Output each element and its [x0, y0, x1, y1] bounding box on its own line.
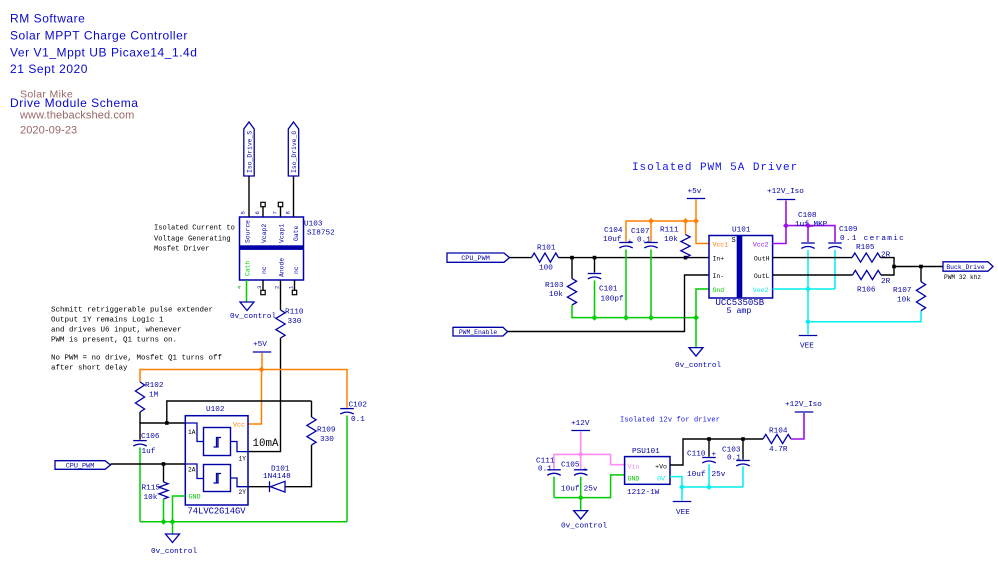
svg-text:CPU_PWM: CPU_PWM — [461, 255, 490, 263]
wire CPU_PWM to R101 — [510, 257, 532, 259]
svg-text:10k: 10k — [664, 236, 678, 244]
svg-text:and drives U6 input, whenever: and drives U6 input, whenever — [51, 327, 182, 335]
svg-text:In+: In+ — [713, 255, 725, 262]
capacitor C104 10uf — [603, 227, 633, 248]
resistor R111 10k — [660, 227, 690, 258]
capacitor C105 10uf — [561, 462, 598, 494]
svg-text:C107: C107 — [631, 228, 650, 236]
svg-text:+: + — [628, 239, 633, 247]
wire R109 leads — [285, 401, 312, 487]
svg-text:1Y: 1Y — [239, 456, 247, 463]
svg-text:Isolated Current to: Isolated Current to — [154, 225, 235, 233]
svg-text:10k: 10k — [549, 291, 563, 299]
svg-text:5 amp: 5 amp — [727, 307, 752, 316]
svg-text:1212-1W: 1212-1W — [627, 489, 660, 497]
wire D101 cathode to U102 2Y — [248, 486, 270, 488]
junction cyan psu left — [679, 484, 685, 490]
svg-text:3: 3 — [256, 286, 263, 289]
svg-text:OutL: OutL — [754, 273, 770, 280]
svg-text:10uf: 10uf — [603, 236, 622, 244]
junction cyan C108-vee2 — [805, 286, 811, 292]
svg-text:C105: C105 — [561, 462, 580, 470]
junction green C104 — [623, 315, 629, 321]
svg-text:Vin: Vin — [628, 464, 640, 471]
svg-text:74LVC2G14GV: 74LVC2G14GV — [188, 507, 247, 517]
svg-text:Gate: Gate — [293, 225, 300, 241]
wire +5V stem (orange) — [261, 353, 263, 370]
ground 0v_control right — [675, 348, 722, 370]
svg-text:nc: nc — [293, 266, 300, 274]
power symbol +5v (right) — [687, 188, 706, 199]
U103 no-connect stub pin 1 — [292, 280, 296, 295]
net flag Iso_Drive_G — [288, 122, 298, 176]
svg-text:Buck_Drive: Buck_Drive — [946, 264, 985, 271]
svg-text:Vcc2: Vcc2 — [753, 242, 769, 249]
svg-text:Solar MPPT Charge Controller: Solar MPPT Charge Controller — [10, 29, 188, 43]
svg-text:R101: R101 — [537, 245, 556, 253]
svg-text:R104: R104 — [769, 428, 788, 436]
svg-text:10k: 10k — [144, 494, 158, 502]
wire CPU_PWM to U102 2A — [111, 463, 186, 465]
svg-text:+: + — [712, 451, 717, 459]
net flag Buck_Drive — [943, 262, 993, 271]
wire R110 down to 1Y output of U102 — [248, 338, 281, 452]
wire U102 GND to ground bus (green) — [173, 496, 186, 522]
svg-text:7: 7 — [272, 211, 279, 214]
svg-text:0.1: 0.1 — [538, 466, 552, 474]
svg-text:Gnd: Gnd — [713, 287, 725, 294]
svg-text:In-: In- — [713, 273, 725, 280]
svg-text:Voltage Generating: Voltage Generating — [154, 236, 231, 244]
capacitor C108 1uf_MKP — [795, 212, 828, 249]
wire OutL to R106 — [773, 274, 853, 276]
svg-text:0.1 ceramic: 0.1 ceramic — [840, 235, 905, 243]
junction R115 bus — [161, 519, 167, 525]
net flag PWM_Enable — [453, 327, 508, 336]
junction green C107 — [648, 315, 654, 321]
wire flag G to U103 pin 8 — [293, 176, 295, 217]
svg-text:0.1: 0.1 — [351, 416, 365, 424]
junction green psu — [578, 495, 584, 501]
wire C105 bottom green — [580, 477, 582, 498]
svg-text:0V: 0V — [657, 476, 665, 483]
svg-text:21 Sept 2020: 21 Sept 2020 — [10, 62, 88, 76]
svg-text:S: S — [732, 237, 736, 245]
svg-text:Iso_Drive_G: Iso_Drive_G — [291, 131, 298, 173]
svg-text:Cath: Cath — [245, 260, 252, 276]
svg-text:2020-09-23: 2020-09-23 — [20, 125, 77, 137]
capacitor C102 0.1 — [340, 402, 367, 425]
orange bus right circuit — [626, 221, 709, 244]
junction +5v at stem — [259, 367, 265, 373]
resistor R104 4.7R — [763, 428, 791, 455]
svg-text:10uf: 10uf — [561, 486, 580, 494]
svg-text:VEE: VEE — [800, 343, 814, 351]
svg-text:0v_control: 0v_control — [675, 362, 722, 370]
ground 0v_control psu — [561, 511, 608, 531]
svg-text:C111: C111 — [536, 458, 555, 466]
wire node A up to feedback line — [167, 401, 312, 423]
svg-text:+5V: +5V — [253, 341, 267, 349]
svg-text:10uf: 10uf — [687, 471, 706, 479]
VEE power symbol (psu) — [673, 487, 692, 517]
wire U103 anode down to R110 — [280, 280, 282, 310]
net flag CPU_PWM (right) — [447, 253, 510, 263]
wire C102 bottom to ground bus (green) — [346, 416, 348, 522]
svg-text:U102: U102 — [206, 406, 225, 414]
svg-text:R105: R105 — [856, 244, 875, 252]
junction C110 — [707, 437, 711, 441]
svg-text:Isolated PWM 5A Driver: Isolated PWM 5A Driver — [632, 162, 798, 174]
wire C109 bottom cyan — [834, 250, 836, 289]
wire C103 bottom cyan — [742, 466, 744, 487]
svg-text:C108: C108 — [798, 212, 817, 220]
diode D101 1N4148 — [263, 466, 291, 493]
purple drop C108 — [807, 226, 809, 242]
svg-text:PSU101: PSU101 — [632, 448, 660, 456]
wire Vcc2 purple — [773, 201, 786, 244]
junction cyan C110 — [706, 484, 712, 490]
svg-text:R102: R102 — [145, 382, 164, 390]
purple bus to caps — [786, 226, 835, 242]
junction C101 — [593, 256, 597, 260]
junction R103 — [570, 256, 574, 260]
svg-text:Schmitt retriggerable pulse ex: Schmitt retriggerable pulse extender — [51, 307, 213, 315]
resistor R103 10k — [545, 258, 577, 305]
svg-text:C106: C106 — [141, 433, 160, 441]
svg-text:after short delay: after short delay — [51, 365, 128, 373]
junction at R115 — [162, 462, 166, 466]
power symbol +12V_Iso (upper) — [767, 188, 804, 200]
U102 schmitt inverter 2 — [204, 465, 231, 492]
ground bus left circuit (green) — [140, 521, 347, 523]
svg-text:R111: R111 — [660, 227, 679, 235]
capacitor C107 0.1 — [631, 228, 658, 248]
svg-text:R107: R107 — [893, 287, 912, 295]
svg-text:+: + — [583, 467, 588, 475]
svg-text:PWM is present, Q1 turns on.: PWM is present, Q1 turns on. — [51, 337, 177, 345]
U103 no-connect stub pin 3 — [261, 280, 265, 295]
junction cyan bus — [805, 319, 811, 325]
svg-text:RM Software: RM Software — [10, 12, 85, 26]
svg-text:www.thebackshed.com: www.thebackshed.com — [19, 110, 134, 122]
wire +5v orange bus — [140, 370, 347, 404]
svg-text:6: 6 — [254, 211, 261, 214]
svg-text:0.1: 0.1 — [727, 455, 741, 463]
resistor R106 2R — [853, 270, 891, 294]
junction purple stem — [783, 223, 789, 229]
power symbol +5V (left) — [253, 341, 272, 352]
svg-text:Vee2: Vee2 — [753, 287, 769, 294]
svg-text:Vcap2: Vcap2 — [261, 224, 268, 243]
U103 no-connect stub pin 6 — [261, 202, 265, 217]
wire orange to U102 Vcc — [248, 370, 262, 425]
wire stem ground psu — [580, 498, 582, 511]
orange drop C107 — [650, 221, 652, 242]
svg-text:2: 2 — [274, 286, 281, 289]
svg-text:25v: 25v — [712, 471, 726, 479]
wire R103 to gnd bus (green) — [572, 305, 696, 318]
wire C106 bottom to ground bus (green) — [139, 448, 141, 522]
ground 0v_control bottom left — [151, 534, 198, 556]
wire C104 to gnd bus (green) — [625, 249, 627, 317]
svg-text:C109: C109 — [839, 226, 858, 234]
ground 0v_control under U103 — [230, 302, 277, 321]
wire C101 to gnd bus (green) — [594, 280, 596, 317]
wire stem to ground symbol (green) — [172, 522, 174, 534]
resistor R105 2R — [852, 244, 891, 262]
svg-text:0.1: 0.1 — [637, 237, 651, 245]
svg-text:nc: nc — [261, 266, 268, 274]
svg-text:1uf: 1uf — [142, 448, 156, 456]
junction R107 — [919, 265, 923, 269]
pink bus — [554, 454, 625, 469]
resistor R102 1M — [135, 382, 163, 412]
net flag CPU_PWM (left) — [55, 461, 111, 471]
wire OutH to R105 — [773, 257, 852, 259]
svg-text:+5v: +5v — [688, 188, 702, 196]
capacitor C106 1uf — [133, 423, 160, 456]
svg-text:+12V_Iso: +12V_Iso — [785, 401, 822, 409]
svg-text:No PWM = no drive, Mosfet Q1 t: No PWM = no drive, Mosfet Q1 turns off — [51, 355, 223, 363]
wire PWM_Enable to U101 In- — [508, 275, 710, 332]
pink drop C105 — [580, 454, 582, 469]
power symbol +12V_Iso (psu) — [785, 401, 822, 412]
svg-text:25v: 25v — [584, 486, 598, 494]
capacitor C110 10uf — [687, 439, 726, 479]
green bus PSU — [554, 475, 625, 498]
cyan bus psu — [682, 486, 743, 488]
svg-text:OutH: OutH — [754, 255, 770, 262]
svg-text:+Vo: +Vo — [655, 464, 667, 471]
svg-text:0v_control: 0v_control — [230, 313, 277, 321]
resistor R110 330 — [276, 309, 304, 339]
svg-text:2R: 2R — [881, 278, 891, 286]
svg-text:2Y: 2Y — [239, 489, 247, 496]
wire R102 to node A — [140, 412, 185, 423]
svg-text:Drive Module Schema: Drive Module Schema — [10, 96, 139, 110]
svg-text:R103: R103 — [545, 282, 564, 290]
wire C107 to gnd bus (green) — [650, 249, 652, 317]
op-amp U103 SI8752 isolated mosfet driver body — [240, 217, 304, 280]
IC U102 74LVC2G14GV body — [185, 416, 248, 505]
svg-text:330: 330 — [288, 318, 302, 326]
capacitor C101 100pf — [588, 258, 624, 304]
junction orange stem — [693, 218, 699, 224]
junction orange C107 — [648, 218, 654, 224]
orange drop R111 — [685, 221, 687, 235]
svg-text:R106: R106 — [857, 287, 876, 295]
VEE power symbol (upper) — [799, 322, 818, 351]
junction green C101 — [592, 315, 598, 321]
resistor R107 10k — [893, 267, 926, 311]
junction pink — [578, 451, 584, 457]
svg-text:C103: C103 — [722, 447, 741, 455]
junction output — [892, 265, 896, 269]
wire R105/R106 join — [881, 258, 944, 275]
svg-text:Vcap1: Vcap1 — [279, 224, 286, 243]
svg-text:1N4148: 1N4148 — [263, 473, 291, 481]
svg-text:GND: GND — [628, 476, 640, 483]
svg-text:0v_control: 0v_control — [561, 523, 608, 531]
svg-text:Output 1Y remains Logic 1: Output 1Y remains Logic 1 — [51, 317, 164, 325]
wire R115 to ground bus (green) — [163, 499, 165, 522]
wire +5v stem orange — [695, 200, 697, 222]
svg-text:Anode: Anode — [279, 258, 286, 277]
capacitor C109 0.1 ceramic — [828, 226, 905, 249]
svg-text:5: 5 — [240, 211, 247, 214]
svg-text:+12V: +12V — [571, 420, 590, 428]
junction node A — [165, 421, 169, 425]
capacitor C103 0.1 — [722, 439, 750, 466]
wire Vee2 cyan — [773, 288, 835, 290]
svg-text:2A: 2A — [188, 467, 196, 474]
junction R111 — [684, 256, 688, 260]
svg-text:GND: GND — [189, 494, 201, 502]
svg-text:Mosfet Driver: Mosfet Driver — [154, 246, 209, 254]
svg-text:10k: 10k — [897, 297, 911, 305]
svg-text:Ver V1_Mppt UB Picaxe14_1.4d: Ver V1_Mppt UB Picaxe14_1.4d — [10, 46, 198, 60]
capacitor C111 0.1 — [536, 458, 561, 476]
svg-text:4.7R: 4.7R — [769, 446, 788, 454]
svg-text:1uf_MKP: 1uf_MKP — [795, 221, 828, 229]
svg-text:1M: 1M — [149, 392, 159, 400]
svg-text:10mA: 10mA — [253, 438, 279, 450]
svg-text:SI8752: SI8752 — [307, 230, 335, 238]
svg-text:C104: C104 — [604, 227, 623, 235]
svg-text:0v_control: 0v_control — [151, 548, 198, 556]
svg-text:C101: C101 — [599, 286, 618, 294]
svg-text:C110: C110 — [687, 451, 706, 459]
junction gnd bus — [170, 519, 176, 525]
resistor R101 100 — [532, 245, 559, 273]
svg-text:R110: R110 — [285, 309, 304, 317]
wire +12V stem pink — [580, 432, 582, 455]
svg-text:330: 330 — [320, 436, 334, 444]
svg-text:Iso_Drive_S: Iso_Drive_S — [246, 131, 253, 173]
wire U101 Gnd to green bus — [696, 289, 709, 348]
U102 schmitt inverter 1 — [204, 428, 231, 456]
junction green bus corner — [693, 315, 699, 321]
svg-text:Vcc1: Vcc1 — [713, 242, 729, 249]
svg-text:Vcc: Vcc — [233, 422, 245, 430]
svg-text:CPU_PWM: CPU_PWM — [66, 462, 95, 470]
net flag Iso_Drive_S — [244, 122, 254, 176]
svg-text:U101: U101 — [732, 227, 751, 235]
svg-text:U103: U103 — [304, 221, 323, 229]
svg-text:PWM_Enable: PWM_Enable — [459, 329, 498, 336]
svg-text:PWM 32 khz: PWM 32 khz — [944, 274, 981, 281]
svg-text:+12V_Iso: +12V_Iso — [767, 188, 804, 196]
power symbol +12V — [571, 420, 590, 431]
svg-text:100: 100 — [539, 265, 553, 273]
wire C110 bottom cyan — [708, 464, 710, 487]
svg-text:8: 8 — [285, 211, 292, 214]
wire R101 to U101 In+ — [559, 257, 710, 259]
junction C103 — [741, 437, 745, 441]
svg-text:VEE: VEE — [676, 509, 690, 517]
IC U101 UCC5350SB body — [709, 236, 773, 299]
junction purple C108 — [805, 223, 811, 229]
U103 no-connect stub pin 7 — [278, 202, 282, 217]
wire PSU 0V cyan — [670, 477, 682, 487]
wire +Vo black — [670, 439, 763, 465]
svg-text:100pf: 100pf — [601, 296, 624, 304]
wire U103 cathode to ground (green) — [246, 280, 248, 302]
cyan VEE bus — [808, 311, 921, 322]
svg-text:C102: C102 — [349, 402, 368, 410]
svg-text:1A: 1A — [188, 429, 196, 436]
svg-text:R109: R109 — [317, 427, 336, 435]
IC PSU101 1212-1W body — [625, 457, 670, 485]
wire flag S to U103 pin 5 — [248, 176, 250, 217]
wire R104 to +12V_Iso purple — [791, 413, 804, 439]
resistor R109 330 — [307, 417, 336, 445]
svg-text:Isolated 12v for driver: Isolated 12v for driver — [620, 417, 720, 425]
svg-text:Source: Source — [245, 220, 252, 243]
resistor R115 10k — [142, 464, 169, 502]
svg-text:R115: R115 — [142, 485, 161, 493]
junction orange R111 — [683, 218, 689, 224]
wire C108 bottom cyan — [807, 250, 809, 322]
wire C111 bottom green — [553, 477, 555, 498]
U102 internal wiring — [185, 423, 248, 487]
